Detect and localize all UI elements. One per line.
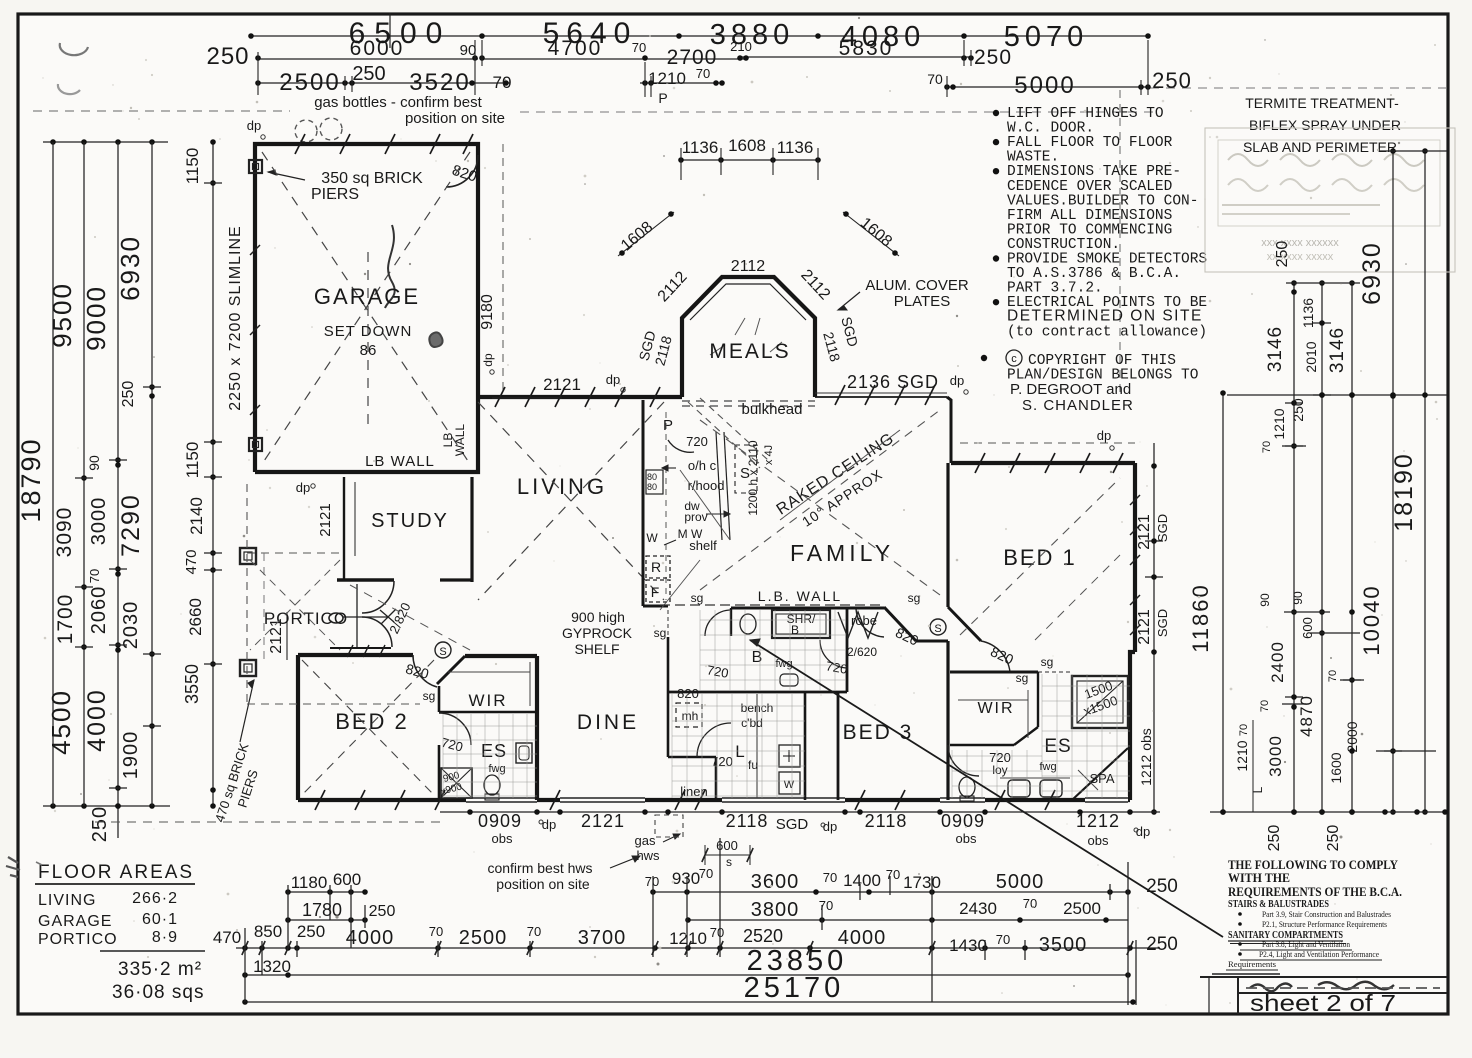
svg-text:fu: fu [748, 758, 758, 772]
wall: bed1 west and door diagonal [946, 463, 949, 607]
notes bullet list [993, 110, 999, 116]
svg-text:LIVING: LIVING [38, 892, 96, 909]
svg-text:600: 600 [333, 870, 361, 889]
wir bed2 walls [439, 711, 537, 714]
svg-text:2118: 2118 [726, 811, 769, 831]
svg-text:1900: 1900 [120, 731, 142, 780]
window 0909 bed2 es [466, 796, 537, 804]
svg-text:3000: 3000 [88, 497, 110, 546]
svg-text:70: 70 [632, 40, 646, 55]
svg-text:250: 250 [352, 63, 385, 85]
gas bottle circles [295, 120, 317, 142]
svg-text:robe: robe [851, 613, 877, 628]
svg-text:SGD: SGD [1155, 609, 1170, 637]
svg-text:BIFLEX SPRAY UNDER: BIFLEX SPRAY UNDER [1249, 117, 1401, 133]
svg-text:90: 90 [460, 42, 477, 59]
svg-text:DETERMINED ON SITE: DETERMINED ON SITE [1007, 308, 1203, 325]
svg-text:3146: 3146 [1265, 326, 1286, 372]
svg-text:80: 80 [647, 482, 657, 492]
svg-text:ES: ES [1044, 736, 1071, 757]
svg-text:1320: 1320 [253, 957, 291, 976]
es bed2 basin [516, 743, 532, 763]
svg-text:GARAGE: GARAGE [314, 284, 420, 309]
svg-text:250: 250 [1290, 398, 1306, 422]
bottom dim row A [288, 891, 365, 893]
svg-text:70: 70 [819, 898, 833, 913]
hatch ticks living top wall [495, 387, 505, 407]
svg-text:900 high: 900 high [571, 609, 625, 625]
svg-text:GARAGE: GARAGE [38, 913, 112, 930]
stray pen arcs top-left [60, 43, 88, 55]
svg-text:70: 70 [927, 71, 943, 87]
svg-text:335·2 m²: 335·2 m² [118, 959, 202, 980]
svg-text:3600: 3600 [751, 871, 800, 893]
svg-text:PIERS: PIERS [311, 186, 359, 203]
wall: bed1 right [1133, 463, 1137, 652]
svg-text:250: 250 [1274, 241, 1291, 268]
svg-text:7290: 7290 [117, 493, 145, 557]
svg-text:SGD: SGD [776, 816, 809, 833]
svg-text:70: 70 [429, 924, 443, 939]
tile grid master es [1041, 674, 1043, 798]
svg-text:WIR: WIR [468, 691, 507, 710]
svg-text:3500: 3500 [1039, 934, 1088, 956]
foyer dashed diagonals [350, 585, 470, 650]
svg-text:1400: 1400 [843, 871, 881, 890]
svg-text:80: 80 [647, 472, 657, 482]
svg-text:850: 850 [254, 922, 282, 941]
svg-text:36·08 sqs: 36·08 sqs [112, 982, 204, 1003]
es bed2 walls door [438, 745, 441, 800]
svg-text:WITH THE: WITH THE [1228, 870, 1290, 885]
left dims top connector [43, 141, 168, 143]
svg-text:F: F [651, 584, 660, 600]
svg-text:LB WALL: LB WALL [365, 453, 435, 470]
svg-text:dp: dp [606, 372, 620, 387]
hatch ticks bottom wall [315, 790, 325, 810]
svg-text:P: P [663, 417, 673, 434]
bottom dim row B [288, 919, 365, 921]
svg-text:obs: obs [1088, 833, 1109, 848]
svg-text:2500: 2500 [1063, 899, 1101, 918]
svg-text:70: 70 [886, 867, 900, 882]
svg-text:SET DOWN: SET DOWN [324, 323, 413, 340]
spa corner [1072, 748, 1128, 800]
svg-text:sg: sg [908, 591, 921, 605]
svg-text:70: 70 [1261, 441, 1273, 453]
family door arc 820 [856, 607, 884, 637]
svg-text:2500: 2500 [279, 69, 340, 96]
svg-text:1608: 1608 [728, 136, 766, 155]
dashed line right of garage [502, 144, 504, 396]
svg-text:S. CHANDLER: S. CHANDLER [1022, 397, 1134, 414]
wall: garage outline [255, 144, 478, 472]
svg-text:SHELF: SHELF [574, 641, 619, 657]
svg-text:1430: 1430 [949, 936, 987, 955]
svg-text:STUDY: STUDY [371, 510, 449, 532]
svg-text:L: L [735, 742, 744, 761]
svg-text:sg: sg [654, 626, 667, 640]
svg-text:5000: 5000 [1014, 72, 1075, 99]
svg-text:3000: 3000 [1266, 735, 1285, 777]
svg-text:Part 3.9, Stair Construction a: Part 3.9, Stair Construction and Balustr… [1262, 909, 1391, 919]
svg-text:1150: 1150 [183, 148, 202, 185]
svg-text:6930: 6930 [1358, 241, 1386, 305]
hall LB wall dashed [660, 604, 880, 606]
svg-text:4870: 4870 [1297, 695, 1316, 737]
left dim vertical 18790 [52, 142, 54, 806]
svg-text:TERMITE TREATMENT-: TERMITE TREATMENT- [1245, 95, 1399, 111]
living dashed diagonals [478, 402, 664, 600]
svg-text:2121: 2121 [317, 503, 334, 536]
svg-text:2136 SGD: 2136 SGD [847, 372, 939, 392]
bath toilet [740, 614, 756, 634]
svg-text:sg: sg [691, 591, 704, 605]
garage pier top-left [249, 160, 262, 173]
svg-text:DINE: DINE [577, 711, 639, 734]
svg-text:1210: 1210 [1234, 740, 1250, 771]
svg-text:9180: 9180 [479, 294, 496, 330]
svg-text:266·2: 266·2 [132, 890, 178, 907]
svg-text:2121: 2121 [1136, 514, 1153, 550]
left column crossbars [75, 477, 93, 479]
hatch ticks garage top wall [295, 134, 305, 154]
svg-text:prov: prov [684, 510, 707, 524]
svg-text:ALUM. COVER: ALUM. COVER [865, 277, 969, 294]
svg-text:B: B [752, 649, 763, 666]
svg-text:9500: 9500 [47, 282, 77, 348]
garage door arc 820 [446, 155, 478, 187]
wall: living top [476, 395, 682, 399]
wall: laundry [804, 692, 807, 800]
svg-text:720: 720 [686, 434, 708, 449]
svg-text:930: 930 [672, 869, 700, 888]
svg-text:1136: 1136 [682, 138, 719, 157]
svg-text:GYPROCK: GYPROCK [562, 625, 633, 641]
faded stamp box [1205, 128, 1455, 272]
svg-text:4000: 4000 [83, 688, 111, 752]
svg-text:confirm best hws: confirm best hws [487, 860, 592, 876]
entry sill wall [330, 647, 391, 649]
svg-text:L.B. WALL: L.B. WALL [758, 588, 842, 604]
svg-text:4500: 4500 [46, 689, 76, 755]
svg-text:1210: 1210 [648, 69, 686, 88]
leader line to sanitary note [750, 640, 1223, 937]
svg-text:8·9: 8·9 [152, 929, 178, 946]
svg-text:(to contract allowance): (to contract allowance) [1007, 324, 1207, 340]
svg-text:2250 x 7200 SLIMLINE: 2250 x 7200 SLIMLINE [227, 225, 244, 410]
garage pier bottom-left [249, 438, 262, 451]
svg-text:P: P [658, 90, 667, 106]
svg-text:70: 70 [1327, 670, 1339, 682]
svg-text:BED 1: BED 1 [1003, 545, 1077, 570]
plan number scribble [1250, 982, 1394, 992]
svg-text:820: 820 [677, 686, 699, 701]
svg-text:L: L [1251, 786, 1265, 793]
svg-text:2500: 2500 [459, 927, 508, 949]
svg-text:2140: 2140 [187, 497, 206, 535]
wall: hall linen [667, 637, 670, 757]
svg-text:MEALS: MEALS [709, 340, 790, 363]
svg-text:position on site: position on site [405, 110, 505, 127]
svg-text:70: 70 [1259, 700, 1271, 712]
meals bay inner rail lines [690, 284, 806, 320]
bottom dim row 23850 [245, 974, 1128, 976]
right dim vertical 2121 sgd line [1153, 443, 1155, 812]
svg-text:BED 3: BED 3 [843, 721, 914, 744]
scanner marks left edge [6, 857, 20, 877]
svg-text:FLOOR AREAS: FLOOR AREAS [38, 862, 194, 883]
svg-text:sg: sg [1016, 671, 1029, 685]
svg-text:2660: 2660 [186, 598, 205, 636]
svg-text:R: R [651, 559, 661, 575]
svg-text:FAMILY: FAMILY [790, 540, 894, 566]
svg-text:10040: 10040 [1359, 584, 1384, 655]
bottom opening dims row [440, 811, 1160, 813]
paper speckle noise [484, 167, 486, 169]
svg-text:2121: 2121 [581, 811, 625, 831]
svg-text:3090: 3090 [53, 507, 76, 558]
dashed line top of termite stamp [1150, 87, 1447, 89]
svg-text:dp: dp [542, 817, 556, 832]
dim 2121 portico vertical [286, 612, 288, 660]
svg-text:70: 70 [1238, 724, 1250, 736]
svg-text:1136: 1136 [1300, 298, 1316, 328]
wall: study [470, 477, 473, 582]
compliance stairs items [1238, 912, 1242, 916]
svg-text:LIVING: LIVING [517, 474, 607, 499]
svg-text:sg: sg [1041, 655, 1054, 669]
right dim vertical e 3146 2000 1600 [1351, 283, 1353, 812]
top dim row 2 line [258, 58, 478, 60]
wall: kitchen [642, 400, 645, 606]
kitchen fridge freezer [646, 556, 670, 578]
wall: family top sliding door 2136 SGD [815, 396, 947, 398]
sliding door 2118 SGD bottom [722, 796, 845, 804]
wall: robe diagonal family [884, 607, 916, 641]
svg-text:1210: 1210 [669, 929, 707, 948]
svg-text:70: 70 [823, 870, 837, 885]
svg-text:0909: 0909 [941, 811, 985, 831]
master shower 1500x1500 [1072, 676, 1128, 728]
bath door arc 720 [705, 610, 731, 636]
wall: bathroom [731, 607, 884, 610]
portico piers and dashes [240, 548, 256, 564]
master es toilet [959, 777, 975, 797]
svg-text:250: 250 [974, 46, 1012, 69]
wir master rail [958, 699, 1028, 701]
svg-text:loy: loy [992, 763, 1007, 777]
wall: es right exterior [1130, 652, 1135, 800]
svg-text:470: 470 [183, 549, 200, 574]
wall: master wir es block [950, 671, 1038, 674]
svg-text:11860: 11860 [1188, 583, 1213, 653]
study 2121 dim [354, 482, 356, 556]
svg-text:210: 210 [730, 39, 752, 54]
svg-text:sheet 2 of 7: sheet 2 of 7 [1250, 990, 1396, 1016]
shower SHR B [772, 610, 830, 638]
robe zigzag [838, 612, 878, 638]
svg-text:1180: 1180 [291, 873, 328, 892]
svg-text:linen: linen [680, 784, 707, 799]
right column crossbars [1285, 402, 1303, 404]
svg-text:dp: dp [247, 118, 261, 133]
svg-text:3520: 3520 [409, 69, 470, 96]
svg-text:bulkhead: bulkhead [742, 401, 803, 418]
svg-text:1700: 1700 [54, 594, 77, 645]
svg-text:s: s [726, 855, 732, 869]
svg-text:250: 250 [1325, 825, 1342, 852]
svg-text:dp: dp [1097, 428, 1111, 443]
svg-text:2121: 2121 [1136, 609, 1153, 645]
floor areas sum line [100, 950, 205, 952]
svg-text:90: 90 [1291, 591, 1305, 605]
tile grid bath laundry [699, 610, 701, 690]
svg-text:BED 2: BED 2 [335, 709, 409, 734]
svg-text:5830: 5830 [839, 37, 894, 60]
svg-text:2520: 2520 [743, 926, 783, 946]
svg-text:1730: 1730 [903, 873, 941, 892]
top dim row 3 line [258, 82, 510, 84]
svg-text:gas bottles - confirm best: gas bottles - confirm best [314, 94, 482, 111]
svg-text:3146: 3146 [1327, 327, 1348, 373]
family dashed diagonals [700, 410, 940, 590]
svg-text:1150: 1150 [183, 442, 202, 479]
svg-text:obs: obs [492, 831, 513, 846]
svg-text:600: 600 [1300, 617, 1315, 639]
svg-text:c: c [1011, 353, 1017, 365]
svg-text:PLATES: PLATES [894, 293, 950, 310]
wall: meals octagonal bay [682, 277, 815, 397]
svg-text:PORTICO: PORTICO [38, 931, 118, 948]
svg-text:70: 70 [710, 925, 724, 940]
bed1 door arc 820 [981, 641, 1010, 672]
svg-text:shelf: shelf [689, 538, 717, 553]
svg-text:250: 250 [1146, 876, 1178, 897]
svg-text:250: 250 [120, 381, 137, 408]
svg-text:70: 70 [1023, 896, 1037, 911]
svg-text:70: 70 [996, 932, 1010, 947]
svg-text:5070: 5070 [1004, 21, 1089, 53]
svg-text:720: 720 [711, 754, 733, 769]
svg-text:SLAB AND PERIMETER: SLAB AND PERIMETER [1243, 139, 1397, 155]
left dim vertical 9500 column [83, 142, 85, 806]
left dim vertical 6930 column [151, 142, 153, 806]
svg-text:250: 250 [369, 903, 396, 920]
svg-text:70: 70 [527, 924, 541, 939]
smoke detector S family [930, 619, 946, 635]
svg-text:0909: 0909 [478, 811, 522, 831]
svg-text:W: W [646, 531, 658, 545]
dashed vertical through termite stamp [1119, 90, 1121, 394]
svg-text:250: 250 [1146, 934, 1178, 955]
svg-text:70: 70 [699, 866, 713, 881]
wir rail [448, 671, 530, 673]
bottom dim row 25170 [245, 1001, 1133, 1003]
svg-text:86: 86 [360, 342, 377, 359]
laundry bench [756, 694, 758, 798]
portico dashed diagonals [250, 560, 340, 650]
hatch ticks garage left wall [250, 245, 260, 255]
svg-text:18790: 18790 [16, 437, 46, 522]
bottom feeder verticals [244, 928, 246, 1002]
svg-text:1212: 1212 [1076, 811, 1120, 831]
svg-text:3800: 3800 [751, 899, 800, 921]
wall: family ne corner jog [947, 397, 951, 463]
right dim vertical f 6930 10040 [1392, 151, 1394, 812]
svg-text:90: 90 [86, 455, 102, 471]
garage center squiggle [385, 225, 395, 308]
dashed setback line across top [33, 110, 290, 112]
svg-text:dp: dp [481, 353, 495, 367]
right dim 1210 70 lower [1252, 720, 1254, 812]
left dim vertical 1150 slimline column [212, 142, 214, 806]
svg-text:70: 70 [645, 874, 659, 889]
svg-text:obs: obs [956, 831, 977, 846]
svg-text:4700: 4700 [548, 37, 603, 60]
wall: bed2 block [296, 655, 300, 800]
compliance sanitary items [1238, 942, 1242, 946]
svg-text:x 4J: x 4J [763, 445, 775, 465]
copyright note [981, 355, 987, 361]
svg-text:xxx xxxx xxxxxx: xxx xxxx xxxxxx [1261, 237, 1339, 249]
right dim vertical 11860 [1222, 393, 1224, 812]
svg-text:6930: 6930 [115, 235, 145, 301]
svg-text:REQUIREMENTS OF THE B.C.A.: REQUIREMENTS OF THE B.C.A. [1228, 884, 1402, 899]
es bed2 shower 900x900 [441, 768, 472, 798]
svg-text:350 sq BRICK: 350 sq BRICK [321, 170, 423, 187]
right dim vertical c 3146 2400 3000 [1293, 283, 1295, 812]
svg-text:2/620: 2/620 [847, 645, 877, 659]
svg-text:1212 obs: 1212 obs [1138, 728, 1154, 786]
ticks bottom row C [242, 941, 248, 955]
bulkhead dashed diagonals kitchen [688, 402, 760, 468]
svg-text:4000: 4000 [346, 927, 395, 949]
wall: bed1 top [951, 461, 1135, 465]
svg-text:250: 250 [1152, 68, 1192, 93]
svg-text:2000: 2000 [1344, 721, 1360, 752]
svg-text:1136: 1136 [777, 138, 814, 157]
svg-text:1600: 1600 [1328, 752, 1344, 783]
svg-text:P. DEGROOT and: P. DEGROOT and [1010, 381, 1131, 398]
svg-text:90: 90 [1258, 593, 1272, 607]
kitchen island bench [716, 432, 722, 540]
svg-text:250: 250 [297, 922, 325, 941]
bed2 dashed diagonals [302, 660, 434, 795]
svg-text:250: 250 [206, 43, 249, 70]
svg-text:WIR: WIR [977, 700, 1014, 717]
svg-text:25170: 25170 [744, 972, 845, 1004]
svg-text:dp: dp [950, 373, 964, 388]
dim 1608 right diagonal [843, 212, 899, 256]
svg-text:70: 70 [696, 66, 710, 81]
svg-text:c'bd: c'bd [741, 716, 763, 730]
dim 1608 left diagonal [618, 212, 674, 256]
svg-text:Part 3.8, Light and Ventilatio: Part 3.8, Light and Ventilation [1262, 939, 1351, 949]
laundry door arc 720 [697, 723, 731, 757]
svg-text:P2.4, Light and Ventilation Pe: P2.4, Light and Ventilation Performance [1259, 949, 1379, 959]
svg-text:5000: 5000 [996, 871, 1045, 893]
master es door arc 720 [948, 745, 979, 776]
svg-text:60·1: 60·1 [142, 911, 178, 928]
laundry tub and washer [779, 745, 800, 767]
smoke detector S bed2 [435, 642, 451, 658]
svg-text:2430: 2430 [959, 899, 997, 918]
es bed2 toilet [484, 775, 500, 795]
front door arcs 2/820 [362, 581, 394, 613]
right dim vertical d 1136 2010 600 4870 [1321, 283, 1323, 812]
window 1212 obs spa [1085, 796, 1128, 804]
